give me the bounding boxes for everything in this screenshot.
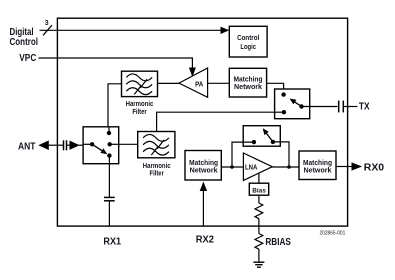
svg-text:Filter: Filter: [150, 170, 165, 177]
svg-text:TX: TX: [359, 101, 370, 113]
matching network M3 (RX output): [299, 151, 336, 180]
svg-text:202865-001: 202865-001: [320, 230, 346, 236]
wire harmonic filter F2 to S2: [157, 112, 275, 131]
bias block: [249, 183, 268, 195]
svg-text:RX1: RX1: [103, 236, 121, 248]
wire VPC: [39, 58, 193, 69]
resistor R1: [255, 203, 263, 219]
wire LNA to bias: [258, 173, 260, 183]
label Digital Control: [10, 26, 39, 48]
label harmonic filter F1: [126, 101, 154, 116]
harmonic filter F2: [138, 132, 175, 158]
arrowhead into antenna switch (right): [67, 141, 83, 150]
matching network M2 (RX input): [185, 151, 221, 181]
wire R2 to ground: [258, 249, 260, 262]
arrowhead VPC into PA: [189, 68, 196, 78]
outer boundary box: [57, 18, 347, 226]
svg-text:Harmonic: Harmonic: [143, 163, 171, 170]
wire C3 to bottom edge (RX1 port): [108, 201, 110, 226]
svg-text:Logic: Logic: [240, 42, 256, 51]
switch S2 (TX select): [275, 89, 310, 119]
wire S2 to TX port: [302, 106, 338, 108]
wire LNA to matching network M3: [272, 166, 299, 168]
svg-text:Network: Network: [234, 82, 263, 91]
svg-text:Control: Control: [10, 36, 39, 48]
svg-text:LNA: LNA: [245, 163, 258, 172]
svg-text:Network: Network: [304, 165, 333, 174]
node B (bypass output junction): [287, 165, 291, 169]
wire M1 to TX switch: [267, 83, 284, 94]
svg-text:RBIAS: RBIAS: [265, 236, 291, 248]
arrowhead ANT (left): [38, 140, 49, 150]
svg-text:Filter: Filter: [132, 109, 147, 116]
wire M2 to LNA: [221, 166, 243, 168]
bus slash: [43, 25, 52, 35]
svg-text:RX2: RX2: [196, 234, 214, 246]
wire S1 middle throw to F2: [119, 143, 138, 145]
svg-text:Bias: Bias: [252, 187, 266, 194]
label harmonic filter F2: [143, 163, 171, 177]
arrowhead into control logic: [221, 27, 230, 34]
svg-text:RX0: RX0: [364, 162, 384, 174]
amplifier LNA: [243, 153, 272, 180]
wire S1 bottom throw down to RX1 cap: [108, 164, 110, 197]
svg-text:ANT: ANT: [18, 140, 36, 152]
switch S1 (antenna SP3T): [83, 127, 119, 164]
resistor R2 (RBIAS): [255, 234, 263, 250]
node A (bypass input junction): [230, 165, 234, 169]
capacitor C2 (TX): [339, 101, 358, 113]
harmonic filter F1: [122, 71, 158, 96]
wire M3 to RX0 port: [336, 166, 352, 168]
svg-text:Control: Control: [237, 33, 259, 42]
wire bias to resistor R1: [258, 195, 260, 203]
ground: [253, 262, 264, 267]
wire PA to matching network M1: [208, 82, 230, 84]
wire F1 to PA: [158, 82, 180, 84]
wire bypass output leg: [273, 142, 289, 167]
wire F1 left to antenna switch: [108, 84, 122, 133]
amplifier PA: [179, 68, 208, 97]
capacitor C1 (ANT): [64, 140, 67, 150]
wire bypass input leg: [232, 142, 254, 167]
arrowhead RX2 into M2: [200, 182, 207, 192]
wire R1 to RBIAS node: [258, 219, 260, 234]
svg-text:Network: Network: [190, 165, 219, 174]
wire ANT to capacitor: [48, 144, 64, 146]
capacitor C3 (RX1): [104, 197, 115, 200]
svg-text:3: 3: [45, 20, 49, 27]
wire RX2 port up to matching network M2: [202, 189, 204, 226]
control logic U1: [229, 26, 267, 57]
svg-text:PA: PA: [195, 79, 204, 88]
matching network M1 (TX): [229, 68, 266, 97]
svg-text:Harmonic: Harmonic: [126, 101, 154, 108]
switch S3 (LNA bypass): [243, 126, 280, 147]
svg-text:VPC: VPC: [19, 52, 36, 64]
arrowhead RX0: [352, 162, 363, 170]
wire digital-control bus: [40, 29, 223, 31]
